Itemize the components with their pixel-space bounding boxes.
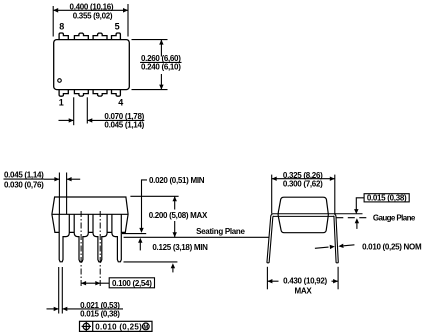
arrowhead left (0.400) <box>53 8 58 13</box>
svg-text:0.020 (0,51) MIN: 0.020 (0,51) MIN <box>149 176 205 185</box>
pin 1 indicator dot <box>58 79 62 83</box>
lead 4 (side view) <box>112 214 121 261</box>
arrowhead up below seating plane (0.020) <box>138 238 142 243</box>
seating plane line <box>124 236 270 238</box>
arrowhead down (0.200) <box>173 232 177 237</box>
dim 0.260/0.240 extension line bottom <box>132 89 168 91</box>
svg-text:8: 8 <box>59 21 64 31</box>
centerline lead 3 <box>99 211 101 287</box>
lead 2 (side view) <box>74 214 88 261</box>
fraction bar 0.260/0.240 <box>140 61 181 63</box>
arrowhead right (0.430) <box>333 279 338 283</box>
arrowhead right-pointing (0.070) <box>69 118 74 122</box>
fraction bar + leader 0.021/0.015 <box>62 308 123 310</box>
svg-text:0.100 (2,54): 0.100 (2,54) <box>112 279 152 288</box>
dim 0.100 pitch arrows <box>81 282 100 284</box>
dim 0.021/0.015 leader left <box>47 308 59 310</box>
right lead (end view) <box>334 214 338 263</box>
pin 7 <box>74 33 88 40</box>
arrowhead left-pointing (0.070) <box>87 118 92 122</box>
svg-text:0.200 (5,08) MAX: 0.200 (5,08) MAX <box>149 211 208 220</box>
dim 0.010 NOM arrows <box>315 243 355 251</box>
lead 3 (side view) <box>93 214 107 261</box>
left lead (end view) <box>267 214 273 263</box>
svg-text:1: 1 <box>59 98 64 108</box>
arrowhead up at gauge plane (0.015) <box>355 218 359 223</box>
svg-text:0.010 (0,25) NOM: 0.010 (0,25) NOM <box>362 242 422 251</box>
dim 0.260/0.240 dimension line segments <box>160 40 162 57</box>
pin 3 <box>93 90 107 97</box>
package body (top view) <box>54 40 130 90</box>
svg-text:Seating Plane: Seating Plane <box>196 227 245 236</box>
dim 0.045/0.030 extension lines <box>58 173 60 215</box>
box 0.015 (0,38) <box>364 194 409 202</box>
dim 0.070/0.045 extension line right <box>86 97 88 123</box>
package body (side view) <box>52 197 128 232</box>
svg-text:0.015 (0,38): 0.015 (0,38) <box>80 309 120 318</box>
dim 0.021/0.015 extension lines <box>58 267 60 314</box>
svg-text:5: 5 <box>115 21 120 31</box>
lead tip extension line <box>124 261 178 263</box>
svg-text:Gauge Plane: Gauge Plane <box>373 213 416 222</box>
leader to 0.100 box <box>100 282 109 284</box>
dim 0.400/0.355 dimension line <box>53 9 128 11</box>
arrowhead right-pointing (0.021) <box>54 307 59 311</box>
pin 4 (bottom-right) <box>112 90 121 97</box>
dim 0.045/0.030 leader right <box>67 178 81 180</box>
lead shoulder extension bar <box>122 233 146 235</box>
arrowhead left-pointing (0.021) <box>62 307 67 311</box>
arrowhead up at lead tips (0.125) <box>171 263 175 268</box>
arrowhead left (0.100) <box>81 281 86 285</box>
lead 1 (side view) <box>59 214 69 261</box>
pin 2 <box>74 90 88 97</box>
dim 0.200 dimension line segments <box>174 196 176 209</box>
arrowhead right (0.100) <box>95 281 100 285</box>
svg-text:0.355 (9,02): 0.355 (9,02) <box>73 11 113 20</box>
pin 8 (top-left) <box>59 33 68 40</box>
arrowhead down (0.260) <box>159 85 163 90</box>
dim 0.070/0.045 extension line left <box>73 97 75 125</box>
fraction bar + leader 0.070/0.045 <box>87 119 144 121</box>
arrowhead left (0.325) <box>272 177 277 181</box>
arrowhead down (0.020) <box>139 228 143 233</box>
svg-text:0.430 (10,92): 0.430 (10,92) <box>283 277 327 286</box>
pin 1 (bottom-left) <box>59 90 68 97</box>
arrowhead up (0.260) <box>159 40 163 45</box>
centerline lead 2 <box>80 211 82 287</box>
dim 0.400/0.355 extension line left <box>52 6 54 37</box>
box 0.100 (2,54) <box>109 278 154 288</box>
arrowhead right-pointing (0.045) <box>54 177 59 181</box>
svg-text:0.300 (7,62): 0.300 (7,62) <box>283 179 323 188</box>
svg-text:4: 4 <box>118 98 123 108</box>
dim 0.200 extension line (body top) <box>130 195 178 197</box>
dim 0.400/0.355 extension line right <box>127 4 129 37</box>
svg-text:MAX: MAX <box>295 287 313 296</box>
lead shoulder bottom line <box>273 215 335 217</box>
dim 0.070/0.045 leader left <box>59 119 74 121</box>
package body (end view) <box>278 197 328 233</box>
M circle symbol <box>142 323 149 330</box>
dim 0.325/0.300 dimension line <box>272 178 335 180</box>
pin 6 <box>93 33 107 40</box>
leader from 0.015 box <box>356 198 364 210</box>
gauge plane dashed line <box>336 217 369 219</box>
arrowhead right (0.400) <box>123 8 128 13</box>
dim 0.020 leader elbow <box>142 180 148 228</box>
dim 0.325/0.300 extension lines <box>271 175 273 214</box>
dim 0.045/0.030 leader left <box>44 178 59 180</box>
svg-text:0.260 (6,60): 0.260 (6,60) <box>141 54 181 63</box>
svg-text:0.125 (3,18) MIN: 0.125 (3,18) MIN <box>152 243 208 252</box>
dim 0.430 dimension line segments <box>267 280 278 282</box>
position symbol <box>83 323 89 329</box>
svg-text:0.070 (1,78): 0.070 (1,78) <box>104 112 144 121</box>
arrowhead down (0.015) <box>354 209 358 214</box>
mold parting line <box>52 213 128 215</box>
svg-text:0.030 (0,76): 0.030 (0,76) <box>4 181 44 190</box>
arrowhead up (0.200) <box>173 196 177 201</box>
dim 0.260/0.240 extension line top <box>132 39 168 41</box>
feature control frame <box>80 321 153 331</box>
fraction bar 0.045/0.030 <box>4 178 45 180</box>
dim 0.430 extension lines <box>266 267 268 290</box>
svg-text:0.045 (1,14): 0.045 (1,14) <box>4 171 44 180</box>
arrowhead left (0.430) <box>267 279 272 283</box>
lead shoulder top line <box>272 213 362 215</box>
arrowhead left-pointing (0.045) <box>67 177 72 181</box>
svg-text:0.240 (6,10): 0.240 (6,10) <box>141 63 181 72</box>
svg-text:0.045 (1,14): 0.045 (1,14) <box>104 121 144 130</box>
svg-text:0.400 (10,16): 0.400 (10,16) <box>70 2 114 11</box>
pin 5 (top-right) <box>112 33 121 40</box>
svg-text:0.015 (0,38): 0.015 (0,38) <box>367 193 407 202</box>
svg-text:M: M <box>143 325 148 331</box>
svg-text:0.010 (0,25): 0.010 (0,25) <box>95 322 142 331</box>
arrowhead right (0.325) <box>330 177 335 181</box>
